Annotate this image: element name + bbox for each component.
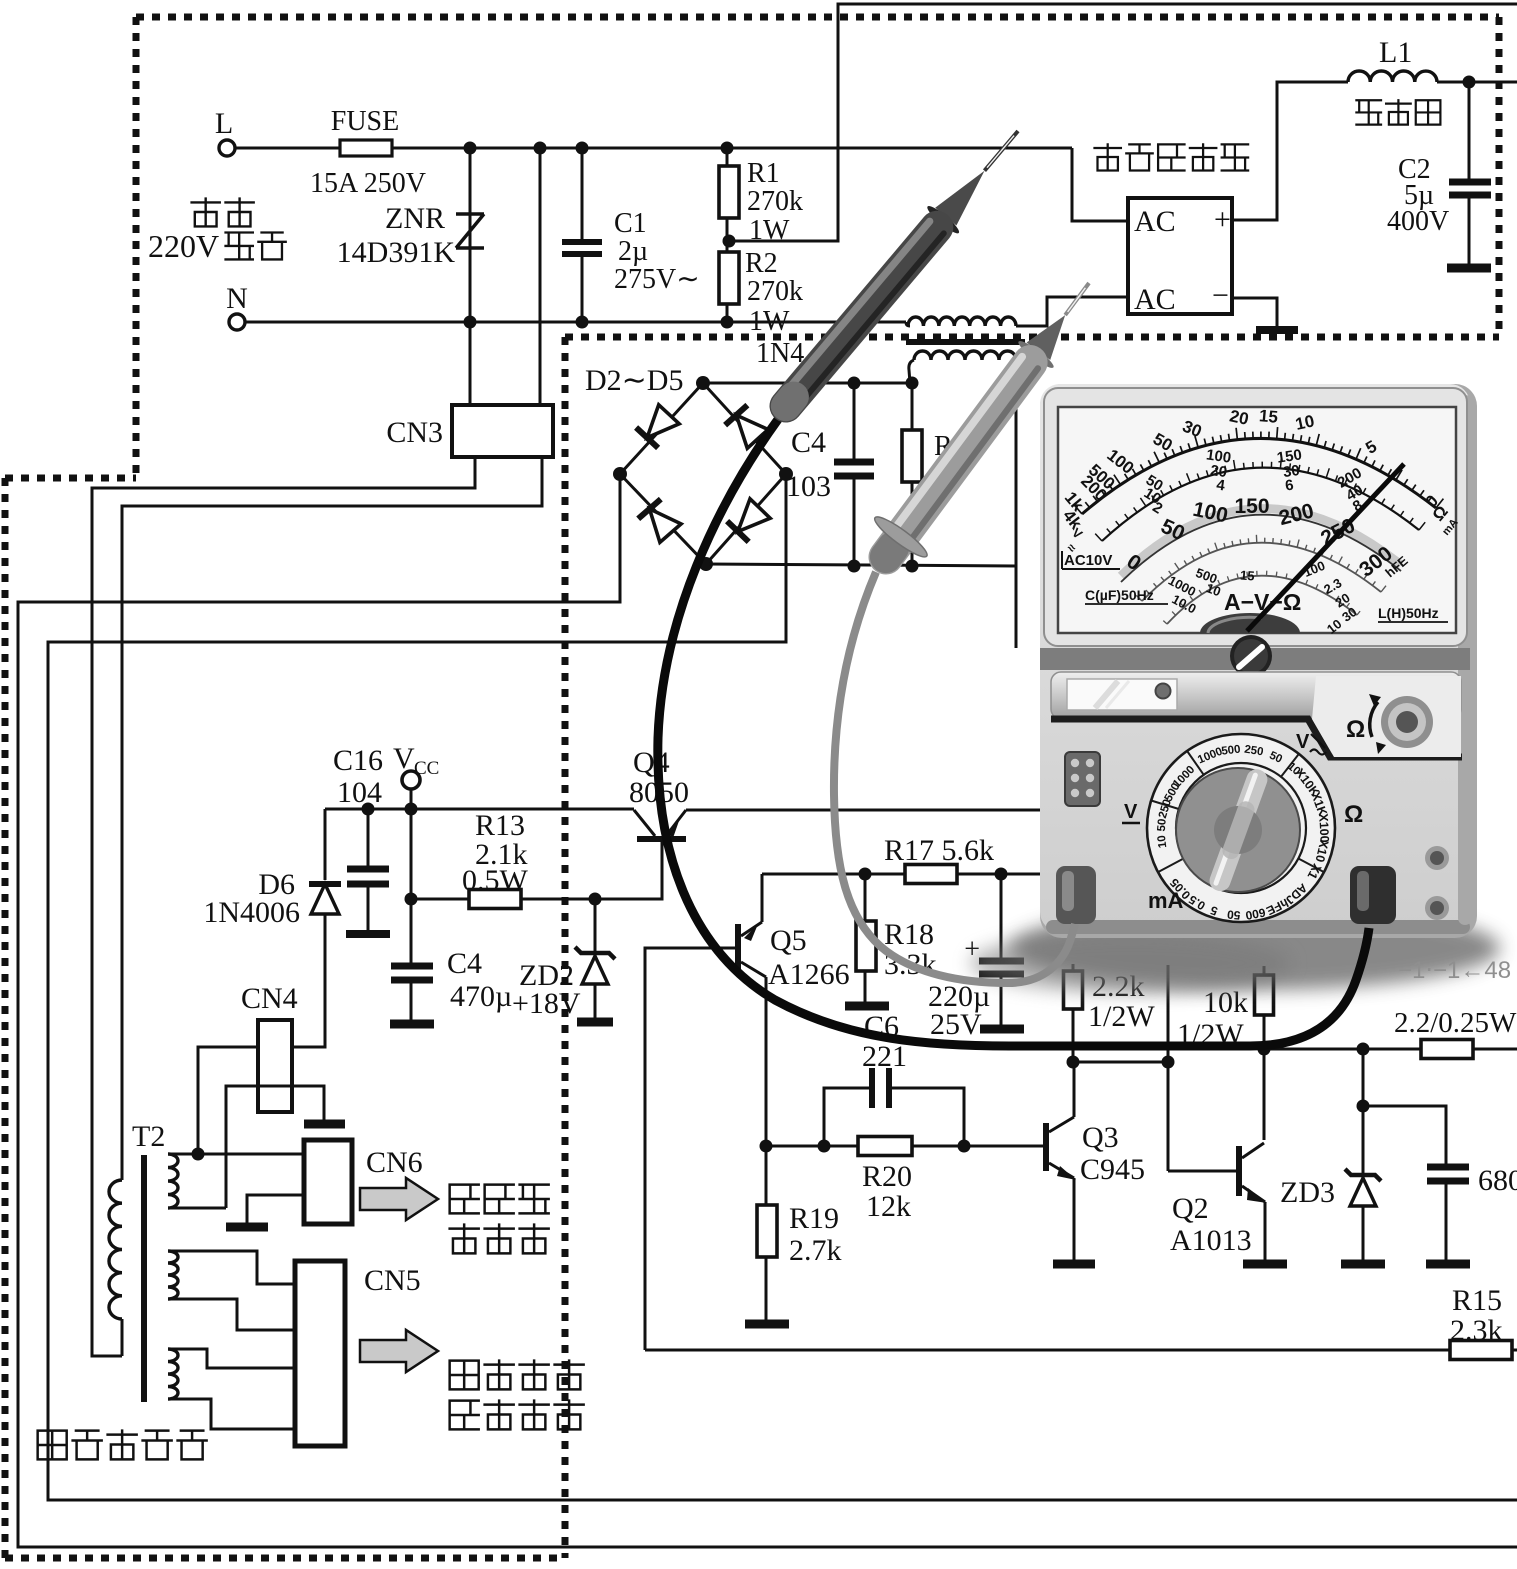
node R17 left (859, 868, 872, 881)
wire bridge right vertex to lower-left rail (48, 474, 1517, 1500)
node C6 right (958, 1140, 971, 1153)
wire Q5 base (645, 948, 735, 1350)
transistor Q2 A1013 (1236, 1146, 1242, 1196)
wire AC+ to L1 (1232, 82, 1348, 220)
wire Vcc stem (410, 789, 413, 809)
resistor R1 270k 1W (719, 166, 739, 218)
meter ticks (1074, 427, 1443, 514)
wire C4 bottom stem (853, 476, 856, 566)
meter scale arc 2 (1102, 468, 1419, 541)
wire R1/R2 midpoint to top edge (729, 4, 1517, 241)
diode D3 (upper-right) (736, 415, 768, 448)
svg-text:D2∼D5: D2∼D5 (585, 364, 683, 397)
svg-text:1W: 1W (749, 306, 790, 337)
wire junction to R25 branch (1073, 1061, 1168, 1064)
wire C1 top (581, 148, 584, 240)
wire L line (392, 147, 1072, 150)
meter scale arc outer (1082, 438, 1436, 514)
wire Q4 collector to meter (686, 809, 1040, 812)
ground bar 680 (1426, 1260, 1470, 1269)
meter scale arc 5 (1167, 576, 1357, 624)
ground bar ZD2 (577, 1018, 613, 1027)
svg-text:C1: C1 (614, 208, 647, 239)
node bridge right vertex (779, 467, 793, 481)
wire Q5-base long rail (645, 1349, 1450, 1352)
resistor R18 3.3k (856, 921, 876, 971)
multimeter shadow (1010, 906, 1500, 990)
zener diode ZD3 (1362, 1106, 1365, 1174)
bridge rectifier D2~D5 diamond (620, 383, 786, 564)
label 供电电路 (supply circuit) (450, 1401, 479, 1430)
svg-text:C945: C945 (1080, 1153, 1145, 1186)
wire AC- to ground (1232, 298, 1277, 326)
svg-text:1/2W: 1/2W (1088, 1000, 1155, 1033)
inductor T1 secondary winding (914, 351, 1016, 360)
svg-text:104: 104 (337, 776, 382, 809)
wire D6 to CN4 (292, 914, 325, 1047)
wire secondary right / rail corner down (1015, 360, 1018, 648)
node ZD3/680 (1357, 1100, 1370, 1113)
wire Vcc bus (325, 808, 634, 811)
connector CN3 (452, 405, 553, 457)
wire R25 branch vertical (1167, 965, 1170, 1171)
svg-text:V: V (1296, 731, 1310, 753)
arrow CN6 to display circuit (360, 1178, 438, 1220)
svg-text:T2: T2 (132, 1120, 165, 1153)
ground bar R18 (845, 1002, 889, 1011)
dotted border left (box B) (2, 478, 9, 1558)
node R25 branch (1162, 1056, 1175, 1069)
wire 10k bottom to Q2 collector (1263, 1049, 1266, 1140)
svg-text:500: 500 (1221, 744, 1242, 758)
node C16 top (362, 803, 375, 816)
wire Q3 emitter to ground (1073, 1178, 1076, 1260)
wire bridge left vertex to lower-left rail (18, 474, 1517, 1547)
label 降压变压器 (step-down transformer) (38, 1431, 67, 1460)
wire C16 bottom stem (367, 884, 370, 930)
svg-text:15: 15 (1240, 568, 1255, 584)
ground bar CN4 (304, 1120, 345, 1129)
capacitor C16 (347, 866, 389, 873)
resistor R2 270k 1W (719, 252, 739, 304)
wire L to CN3 (539, 148, 542, 405)
multimeter body (1040, 384, 1477, 938)
meter ohm-adjust area (1312, 676, 1461, 757)
meter connector block (1065, 752, 1100, 806)
wire rail to edge (1473, 1048, 1517, 1051)
wire T1 primary to bridge AC- (1016, 297, 1128, 326)
svg-text:+: + (1214, 203, 1231, 236)
node C4 bottom (848, 560, 861, 573)
wire secondary1 top to CN6 (168, 1153, 304, 1156)
node Q3 collector junction (1067, 1056, 1080, 1069)
resistor R22 2.2k 1/2W (1072, 964, 1075, 971)
dotted border connector (y=478) (5, 475, 136, 482)
wire T1 secondary left to bridge rail (909, 360, 914, 383)
resistor R25 10k 1/2W (1263, 966, 1266, 975)
diode D5 (lower-right) (738, 499, 770, 532)
node R17 right (995, 868, 1008, 881)
zener diode ZD2 +18V (594, 899, 597, 952)
ground (AC-) (1256, 326, 1298, 334)
inductor L1 choke (1348, 71, 1437, 82)
node C6 left (818, 1140, 831, 1153)
meter knob (screw) (1230, 635, 1272, 677)
svg-text:221: 221 (862, 1040, 907, 1073)
svg-text:50: 50 (1156, 818, 1169, 832)
svg-text:470µ: 470µ (450, 980, 512, 1013)
ground bar C16 (346, 930, 390, 938)
svg-text:Ω: Ω (1344, 801, 1363, 828)
svg-text:R1: R1 (747, 158, 780, 189)
inductor T2 secondary 2 (168, 1251, 178, 1299)
wire 220u top (1000, 874, 1003, 958)
ground bar ZD3 (1341, 1260, 1385, 1269)
svg-text:270k: 270k (747, 276, 803, 307)
label 交流 (AC) (192, 199, 220, 227)
wire Q3 collector (1073, 1062, 1076, 1117)
node ZD2 top (589, 893, 602, 906)
wire N line (245, 321, 906, 324)
wire Q5 collector down (765, 977, 768, 1146)
wire output right (1469, 81, 1517, 84)
gray probe (test pen) (871, 283, 1089, 563)
resistor 2.2/0.25W (1421, 1040, 1473, 1059)
wire C4 top stem (410, 899, 413, 963)
ground bar CN6 (226, 1223, 268, 1232)
transistor Q4 8050 (637, 836, 686, 842)
svg-text:ZD3: ZD3 (1280, 1176, 1335, 1209)
wire CN3 pin2 down-left (122, 457, 542, 1180)
meter hinge band (1040, 648, 1470, 670)
inductor T2 secondary 1 (168, 1154, 178, 1208)
wire secondary3 top to CN5 (168, 1349, 295, 1368)
svg-text:15: 15 (1258, 406, 1279, 427)
svg-text:Q4: Q4 (633, 746, 670, 779)
node L/ZNR junction (464, 142, 477, 155)
svg-text:C(µF)50Hz: C(µF)50Hz (1085, 587, 1154, 603)
svg-text:R15: R15 (1452, 1284, 1502, 1317)
label 扼流圈 (choke) (1356, 100, 1381, 124)
wire R19 bottom (765, 1257, 768, 1320)
node N/R2 junction (721, 316, 734, 329)
node CN4/CN6/secondary (192, 1148, 205, 1161)
capacitor C4 103 (834, 459, 874, 466)
resistor R17 5.6k (905, 865, 957, 884)
capacitor 220u 25V (979, 958, 1024, 965)
ground bar Q3 (1053, 1260, 1095, 1269)
svg-text:1N4006: 1N4006 (203, 896, 300, 929)
wire R1 top (726, 148, 729, 166)
connector CN5 (295, 1261, 345, 1446)
wire to R13 (411, 898, 469, 901)
diode D4 (lower-left) (650, 509, 682, 542)
svg-text:25V: 25V (930, 1008, 982, 1041)
node L/R1 junction (721, 142, 734, 155)
terminal L (219, 140, 235, 156)
ground bar R19 (745, 1320, 789, 1329)
svg-text:AC: AC (1134, 205, 1176, 238)
svg-text:20: 20 (1228, 406, 1250, 429)
svg-text:CN6: CN6 (366, 1146, 423, 1179)
wire Q5 emitter up to R17 rail (761, 874, 764, 922)
dotted border top (box A) (136, 14, 1499, 21)
node bridge bottom vertex (699, 557, 713, 571)
wire secondary3 bottom to CN5 (168, 1399, 295, 1429)
dotted border bottom (box B) (5, 1555, 565, 1562)
wire secondary2 top to CN5 (168, 1251, 295, 1284)
bridge module (AC + / AC -) (1128, 198, 1232, 314)
node N/C1 junction (576, 316, 589, 329)
capacitor C2 5u 400V (1449, 179, 1491, 186)
resistor R13 2.1k 0.5W (469, 890, 521, 909)
inductor T2 secondary 3 (168, 1349, 178, 1399)
node R1/R2 junction (723, 235, 736, 248)
svg-text:50: 50 (1226, 907, 1241, 922)
transistor Q5 A1266 (735, 924, 741, 974)
wire L to fuse (235, 147, 340, 150)
svg-text:C4: C4 (791, 426, 826, 459)
terminal Vcc (402, 771, 420, 789)
svg-text:R19: R19 (789, 1202, 839, 1235)
svg-text:CC: CC (414, 758, 439, 779)
resistor R15 2.3k (1450, 1341, 1512, 1360)
resistor R (snubber, partly hidden) (902, 430, 922, 482)
wire to Q3 base (766, 1145, 1043, 1148)
wire R1-R2 (726, 218, 729, 252)
wire CN4 left pin (198, 1047, 258, 1154)
svg-text:R18: R18 (884, 918, 934, 951)
svg-text:2.2/0.25W: 2.2/0.25W (1394, 1007, 1517, 1039)
dotted border bottom (box A) (565, 334, 1499, 341)
meter window strip (1051, 672, 1461, 719)
wire CN6 lower pin to ground (247, 1195, 304, 1223)
node Vcc bus (405, 803, 418, 816)
svg-text:AC10V: AC10V (1064, 552, 1112, 569)
svg-text:103: 103 (786, 470, 831, 503)
svg-text:N: N (226, 282, 248, 315)
meter dial knob (1176, 768, 1300, 892)
node L/C1 junction (576, 142, 589, 155)
svg-text:L(H)50Hz: L(H)50Hz (1378, 605, 1439, 621)
wire C16 top stem (367, 809, 370, 866)
wire C2 top (1468, 82, 1471, 180)
resistor R19 2.7k (757, 1205, 777, 1257)
node C4 top (848, 377, 861, 390)
wire R13 to Q4 base (521, 841, 662, 899)
svg-text:FUSE: FUSE (331, 106, 399, 137)
multimeter display bezel (1044, 388, 1467, 646)
connector CN4 (258, 1020, 292, 1112)
wire Q2 emitter to ground (1264, 1202, 1267, 1260)
svg-text:ZNR: ZNR (385, 202, 445, 235)
wire 2.2k bottom (1072, 1009, 1075, 1062)
label 桥式整流堆 (bridge stack) (1095, 144, 1121, 170)
node bridge left vertex (613, 467, 627, 481)
connector CN6 (304, 1140, 352, 1224)
capacitor C6 (824, 1088, 869, 1146)
wire to Q2 base (1168, 1170, 1236, 1173)
dotted border left (box A) (133, 17, 140, 478)
wire D6 branch (324, 809, 327, 880)
wire bridge bottom rail (706, 564, 1016, 566)
svg-text:L1: L1 (1379, 36, 1412, 69)
meter ohm-adjust knob (1381, 696, 1433, 748)
node ZD3 branch (1357, 1043, 1370, 1056)
svg-text:V: V (1124, 801, 1138, 823)
wire R snubber bottom (911, 482, 914, 566)
resistor R20 12k (858, 1137, 912, 1156)
svg-text:2.3k: 2.3k (1450, 1314, 1503, 1347)
node 10k/rail (1258, 1043, 1271, 1056)
meter right probe jack (1350, 866, 1396, 924)
label 操作显 (operation display) (450, 1185, 479, 1214)
meter pivot cover (1200, 613, 1300, 633)
dotted border middle vertical (562, 337, 569, 1558)
wire CN3 pin1 down-left (92, 457, 475, 1356)
svg-text:L: L (215, 107, 233, 140)
wire T2 primary bottom (121, 1319, 124, 1356)
wire node to 680 cap (1363, 1106, 1446, 1164)
svg-text:2.7k: 2.7k (789, 1234, 842, 1267)
dotted border right (box A) (1496, 17, 1503, 337)
svg-text:10: 10 (1294, 411, 1316, 434)
ground bar 220u (980, 1025, 1024, 1034)
multimeter screen (1058, 407, 1456, 633)
wire to ZD3 node (1362, 1049, 1365, 1106)
svg-text:+18V: +18V (512, 987, 581, 1020)
node R bottom (906, 560, 919, 573)
ground bar C4 (390, 1020, 434, 1029)
terminal N (229, 314, 245, 330)
wire N to T1 primary (906, 322, 910, 326)
node R19/R20 (760, 1140, 773, 1153)
wire L to bridge AC input (1072, 148, 1128, 221)
wire bridge top rail (703, 382, 912, 385)
svg-text:CN5: CN5 (364, 1264, 421, 1297)
svg-text:CN3: CN3 (386, 416, 443, 449)
svg-text:0.5W: 0.5W (462, 864, 529, 897)
svg-text:AC: AC (1134, 283, 1176, 316)
transistor Q3 C945 (1043, 1123, 1049, 1171)
svg-text:400V: 400V (1387, 206, 1449, 237)
svg-text:CN4: CN4 (241, 982, 298, 1015)
svg-text:270k: 270k (747, 186, 803, 217)
meter output terminals (1425, 846, 1449, 870)
inductor T2 primary (109, 1180, 122, 1319)
meter rotary dial ring (1147, 734, 1335, 922)
node L1/C2 (1463, 76, 1476, 89)
wire secondary2 bottom to CN5 (168, 1299, 295, 1330)
fuse F1 (FUSE 15A 250V) (340, 140, 392, 156)
wire C4 top stem (853, 383, 856, 460)
node N/ZNR junction (464, 316, 477, 329)
svg-text:mA: mA (1148, 888, 1184, 913)
svg-text:Q3: Q3 (1082, 1121, 1119, 1154)
varistor ZNR 14D391K (456, 214, 484, 248)
svg-text:10k: 10k (1203, 986, 1248, 1019)
wire C2 bottom (1468, 195, 1471, 264)
wire crossing CN4 to ground (226, 1086, 324, 1208)
wire R17 rail (762, 873, 1040, 876)
core T1 (906, 339, 1025, 345)
node R/secondary top (906, 377, 919, 390)
meter dial pointer handle (1207, 766, 1271, 893)
svg-text:Q2: Q2 (1172, 1192, 1209, 1225)
ground bar Q2 (1243, 1260, 1287, 1269)
svg-text:Q5: Q5 (770, 924, 807, 957)
black probe cable (658, 418, 1369, 1046)
arrow CN5 to DC supply circuit (360, 1330, 438, 1372)
meter black separator (1051, 719, 1462, 757)
wire C1 bottom (581, 256, 584, 322)
core T2 (141, 1155, 147, 1402)
node bridge top vertex (696, 376, 710, 390)
svg-text:A1266: A1266 (768, 958, 850, 991)
wire R19 top (765, 1146, 768, 1205)
wire L1 to C2 (1437, 81, 1469, 84)
diode D2 (upper-left) (647, 405, 679, 438)
ground (C2) (1447, 264, 1491, 273)
wire Vcc to R13 node (410, 809, 413, 899)
svg-text:680: 680 (1478, 1164, 1517, 1197)
capacitor C1 2u 275V (562, 239, 602, 245)
wire ZNR to CN3 (469, 322, 472, 405)
inductor T1 primary winding (908, 317, 1016, 326)
svg-text:275V∼: 275V∼ (614, 264, 700, 295)
svg-text:C16: C16 (333, 744, 383, 777)
svg-text:V: V (393, 742, 415, 775)
svg-text:150: 150 (1234, 495, 1269, 518)
svg-text:R17 5.6k: R17 5.6k (884, 834, 994, 867)
svg-text:R20: R20 (862, 1160, 912, 1193)
svg-text:Ω: Ω (1346, 716, 1365, 743)
meter scale gray band (1121, 509, 1401, 576)
wire ZNR vertical (469, 148, 472, 405)
capacitor C4 470u (391, 963, 433, 970)
svg-text:220V: 220V (148, 228, 219, 264)
svg-text:R2: R2 (745, 248, 778, 279)
label 示电路 (450, 1225, 479, 1254)
wire R18 top (864, 874, 867, 921)
meter LED (1156, 684, 1171, 699)
node L/CN3 junction (534, 142, 547, 155)
svg-text:A1013: A1013 (1170, 1224, 1252, 1257)
svg-text:−: − (1212, 279, 1229, 312)
wire output rail (1264, 1048, 1421, 1051)
meter scale arc 4 (1142, 543, 1381, 601)
svg-text:C4: C4 (447, 947, 482, 980)
wire R18 bottom (864, 971, 867, 1003)
diode D6 1N4006 (309, 881, 341, 887)
wire T1 secondary right down (1015, 360, 1019, 366)
svg-text:14D391K: 14D391K (337, 236, 456, 269)
meter needle (1247, 464, 1404, 631)
svg-text:−1⋅−1←48: −1⋅−1←48 (1398, 957, 1511, 984)
capacitor 680 (1427, 1164, 1469, 1171)
wire R snubber top (911, 383, 914, 430)
label 直流电源 (DC power) (450, 1361, 479, 1390)
svg-text:1N4: 1N4 (756, 338, 804, 369)
svg-text:10: 10 (1156, 835, 1169, 849)
node R13 left (405, 893, 418, 906)
svg-text:2µ: 2µ (618, 236, 648, 267)
svg-text:12k: 12k (866, 1190, 911, 1223)
wire 10k bottom (1263, 1015, 1266, 1049)
wire secondary1 bottom (168, 1207, 226, 1210)
wire R2 bottom (726, 304, 729, 322)
meter mirror window (1067, 679, 1177, 710)
